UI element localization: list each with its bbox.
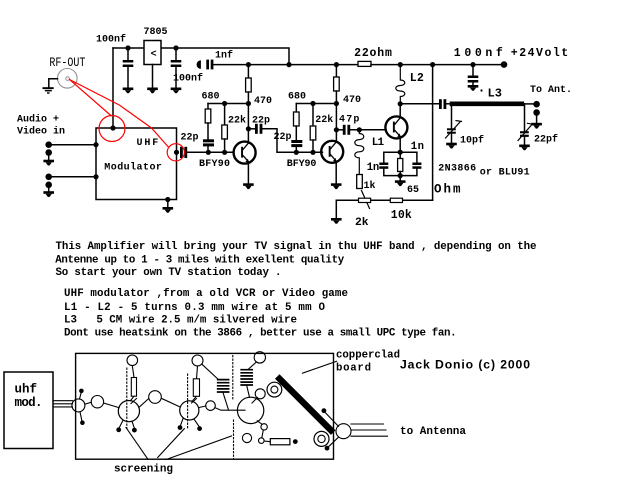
- capacitor C9 100nf: [468, 65, 479, 85]
- pcb choke coil 1: [218, 380, 229, 392]
- node L1 tap: [357, 127, 362, 132]
- pcb mid circle: [206, 401, 216, 411]
- node Q2 collector / 47p tap: [334, 127, 339, 132]
- terminal audio signal dot: [45, 141, 52, 148]
- pcb trace coil2 to PA: [247, 385, 250, 397]
- ground under modulator: [163, 207, 174, 213]
- ground under Q2: [331, 183, 342, 189]
- ground at bias rail: [331, 218, 342, 224]
- svg-text:470: 470: [254, 96, 272, 107]
- resistor R7 22k stage2: [310, 104, 316, 153]
- svg-text:22pf: 22pf: [534, 134, 558, 146]
- resistor R6 680 stage2: [294, 104, 300, 141]
- wire Q3 emitter down: [399, 137, 401, 152]
- wire RF-OUT to ground: [49, 79, 58, 87]
- node Q1 collector / C5 tap: [246, 126, 251, 131]
- terminal video signal dot: [45, 174, 52, 181]
- wire output line to riser: [400, 103, 439, 105]
- pcb double ring 1: [267, 382, 282, 397]
- node emitter network bottom: [398, 173, 403, 178]
- svg-text:L2: L2: [410, 72, 424, 85]
- wire modulator ground lead: [167, 200, 169, 208]
- node junction supply/470 stage1: [246, 62, 251, 67]
- pcb T2 top feed circle: [192, 355, 203, 366]
- connector RF-OUT socket: [58, 69, 78, 89]
- pcb T2 leg dots: [178, 419, 202, 431]
- svg-text:2N3866: 2N3866: [438, 163, 476, 174]
- pcb trace T1 to cap2: [139, 399, 149, 408]
- pcb thick strip L3: [280, 379, 332, 431]
- pcb trace T2 to mid circle: [199, 406, 206, 408]
- wire top rail right of 7805 to corner: [161, 48, 289, 65]
- svg-text:UHF: UHF: [137, 138, 161, 149]
- inductor L2: [396, 65, 405, 104]
- screening pointer line B: [158, 429, 185, 458]
- capacitor C8 1n right: [412, 163, 421, 169]
- ground at audio input: [43, 160, 54, 166]
- wire Q3 collector to output node: [399, 104, 401, 117]
- capacitor C6 47p series: [336, 125, 350, 135]
- resistor R12 65 Ohm: [398, 152, 403, 175]
- svg-text:22p: 22p: [274, 132, 292, 143]
- red callout line A to modulator corner: [70, 80, 112, 116]
- pcb dot after resistor: [293, 439, 298, 444]
- resistor R9 1k: [357, 175, 363, 189]
- svg-text:uhf: uhf: [15, 382, 38, 396]
- pcb antenna connector circle: [336, 424, 351, 439]
- svg-text:or BLU91: or BLU91: [480, 167, 530, 178]
- node junction supply/L2: [398, 62, 403, 67]
- svg-text:680: 680: [288, 92, 306, 103]
- svg-text:680: 680: [202, 92, 220, 103]
- pcb T1 leg dots: [116, 420, 137, 432]
- wire video input: [49, 176, 96, 178]
- pcb T1 feed wire: [131, 366, 135, 401]
- terminal video ground dot: [45, 182, 52, 192]
- pcb output resistor: [270, 439, 290, 445]
- pcb trace mid circle to PA: [215, 408, 245, 411]
- screening pointer line C: [166, 436, 232, 460]
- resistor R2 680 stage1: [205, 104, 211, 140]
- pcb pad dot upper left: [79, 389, 84, 399]
- wire bottom bias rail: [336, 199, 432, 201]
- wire C6 to Q3 base: [350, 129, 386, 131]
- modulator box: [96, 128, 177, 200]
- ground under CT1: [446, 143, 457, 149]
- capacitor C7 1n left: [379, 163, 388, 169]
- pcb cap circle 2: [149, 391, 162, 404]
- pcb resistor T2: [193, 379, 199, 397]
- svg-text:This Amplifier will bring your: This Amplifier will bring your TV signal…: [56, 241, 537, 253]
- pcb lone circle: [242, 433, 251, 442]
- inductor L1: [355, 130, 364, 175]
- pcb antenna pad dot lower: [325, 437, 339, 450]
- capacitor C4 22p series at modulator output: [180, 147, 187, 158]
- svg-text:RF-OUT: RF-OUT: [49, 56, 85, 70]
- svg-text:L1: L1: [372, 137, 385, 149]
- trimmer arrow through 2k: [362, 191, 370, 209]
- node base line / 22k: [222, 150, 227, 155]
- pcb cap circle 1: [91, 396, 103, 408]
- terminal antenna ground dot: [533, 109, 540, 123]
- wire bias rail left leg to ground: [335, 200, 337, 218]
- wire vertical feed down to modulator: [112, 48, 114, 128]
- pcb resistor T1: [131, 378, 136, 397]
- svg-text:UHF modulator ,from a old VCR: UHF modulator ,from a old VCR or Video g…: [64, 288, 348, 300]
- node junction supply corner: [286, 62, 291, 67]
- node base line2 / 22k: [310, 150, 315, 155]
- node modulator RF out pin: [174, 150, 179, 155]
- antenna coax lines: [351, 424, 388, 436]
- capacitor C2 100nf: [171, 48, 182, 88]
- uhf mod box: [4, 372, 53, 449]
- svg-text:10k: 10k: [391, 209, 412, 222]
- pcb trace coil1 down: [223, 393, 229, 410]
- wire bias rail to +24 supply riser: [432, 65, 434, 201]
- terminal +24Volt dot: [501, 61, 508, 68]
- pcb input connector circle: [72, 399, 85, 412]
- transistor Q1 BFY90: [234, 142, 256, 164]
- wire base line stage1: [187, 151, 233, 153]
- trimpot R10 2k: [359, 198, 371, 202]
- regulator U1 7805 box: [144, 41, 161, 65]
- svg-text:L1 - L2 - 5 turns 0.3 mm wire: L1 - L2 - 5 turns 0.3 mm wire at 5 mm O: [64, 302, 326, 314]
- stray dot: [480, 89, 482, 91]
- capacitor C3 1nf series: [197, 60, 214, 70]
- capacitor C5 22p series: [248, 124, 262, 134]
- node junction at C2: [173, 45, 178, 50]
- transistor Q3 2N3866: [385, 116, 407, 138]
- pcb PA bottom right chain: [257, 421, 270, 444]
- ground under Q1: [243, 183, 254, 189]
- wire network to ground: [399, 176, 401, 181]
- wire Q2 emitter to ground: [335, 162, 337, 184]
- capacitor C1 100nf: [123, 48, 134, 88]
- svg-text:22k: 22k: [315, 114, 333, 126]
- svg-text:Antenne up to 1 - 3 miles with: Antenne up to 1 - 3 miles with exellent …: [55, 254, 345, 266]
- node emitter network top: [398, 150, 403, 155]
- svg-text:BFY90: BFY90: [199, 159, 230, 170]
- node stage1 rail/collector: [246, 101, 251, 106]
- svg-text:7805: 7805: [144, 27, 168, 38]
- node base line / R2 chain: [206, 150, 211, 155]
- pcb trace cap1 to T1: [104, 403, 120, 408]
- svg-text:Dont use heatsink on the 3866: Dont use heatsink on the 3866 , better u…: [64, 328, 457, 340]
- wire 7805 ground lead: [152, 65, 154, 88]
- pcb trace cap2 to T2: [161, 398, 180, 407]
- node Q3 collector/L2: [398, 101, 403, 106]
- screening pointer line A: [126, 428, 148, 460]
- svg-text:100nf: 100nf: [173, 73, 203, 85]
- svg-text:to Antenna: to Antenna: [400, 426, 466, 438]
- wire audio input: [49, 144, 96, 146]
- node modulator audio pin: [93, 142, 98, 147]
- pcb transistor PA: [237, 397, 263, 423]
- inductor L3 silver wire: [452, 102, 522, 107]
- svg-text:47p: 47p: [339, 115, 359, 126]
- svg-text:Ohm: Ohm: [434, 183, 461, 197]
- pcb trace T2circle to coil1: [202, 364, 218, 379]
- pcb pad dot lower left: [80, 412, 85, 425]
- red callout line B to output cap: [70, 80, 169, 148]
- terminal antenna signal dot: [533, 101, 540, 108]
- wire supply line right of 22ohm: [371, 64, 504, 66]
- wire C10 to L3: [446, 103, 452, 105]
- wire Q1 emitter to ground: [247, 163, 249, 184]
- node modulator ground pin: [165, 197, 170, 202]
- emitter network frame: [384, 152, 417, 175]
- resistor R11 10k: [390, 198, 402, 202]
- svg-text:Video in: Video in: [17, 126, 65, 138]
- wire supply line y64.6: [213, 64, 358, 66]
- svg-text:1n: 1n: [367, 162, 379, 174]
- svg-text:22k: 22k: [228, 115, 246, 127]
- coax lines mod to board: [53, 401, 73, 407]
- svg-text:22p: 22p: [181, 133, 199, 144]
- resistor R4 22ohm: [358, 61, 371, 66]
- pcb small circle right of PA: [255, 389, 265, 399]
- wire top rail left of 7805: [113, 47, 144, 49]
- node base line2 / R6 chain: [294, 150, 299, 155]
- transistor Q2 BFY90: [321, 141, 343, 163]
- pcb double ring 2: [314, 431, 329, 446]
- svg-text:10pf: 10pf: [460, 135, 484, 147]
- svg-text:65: 65: [407, 185, 419, 196]
- ground at antenna terminal: [531, 123, 542, 129]
- node modulator video pin: [93, 174, 98, 179]
- pcb antenna pad dot upper: [322, 408, 339, 426]
- svg-text:BFY90: BFY90: [287, 159, 317, 170]
- pcb PA top feed circle: [254, 352, 265, 363]
- node stage2 rail/22k: [310, 101, 315, 106]
- svg-text:Modulator: Modulator: [104, 162, 162, 174]
- wire C5 to stage2 base: [262, 129, 322, 153]
- ground under CT2: [519, 145, 530, 151]
- trimmer CT1 10pf: [446, 104, 462, 143]
- pcb transistor T2: [180, 399, 199, 421]
- ground at RF-OUT: [43, 87, 54, 94]
- node junction at C1: [125, 45, 130, 50]
- resistor R8 470 stage2 collector: [334, 65, 340, 143]
- svg-text:To Ant.: To Ant.: [530, 85, 572, 96]
- wire L3 to antenna terminal: [522, 103, 534, 105]
- resistor R1 470 stage1 collector: [246, 65, 252, 144]
- red callout circle on output cap: [167, 144, 184, 161]
- svg-text:100nf: 100nf: [454, 47, 503, 60]
- wire stage2 bias rail: [296, 103, 336, 105]
- svg-text:+24Volt: +24Volt: [511, 47, 568, 60]
- wire stage1 bias rail: [208, 103, 248, 105]
- terminal audio ground dot: [45, 149, 52, 160]
- node junction supply/432 line: [430, 62, 435, 67]
- pcb T2 feed wire: [192, 366, 198, 402]
- screening wall 1 dotted: [126, 368, 128, 428]
- capacitor under R2: [203, 139, 214, 152]
- screening wall 3 dotted upper: [232, 356, 234, 400]
- svg-text:copperclad: copperclad: [336, 349, 400, 361]
- svg-text:22ohm: 22ohm: [354, 47, 392, 60]
- svg-text:1nf: 1nf: [215, 50, 233, 62]
- pcb choke coil 2: [241, 370, 252, 385]
- screening wall 3 dotted lower: [233, 420, 235, 459]
- callout line to board edge: [303, 361, 337, 373]
- node junction supply/470 stage2: [334, 62, 339, 67]
- pcb trace to cap1: [85, 402, 91, 404]
- svg-text:Audio +: Audio +: [17, 114, 59, 126]
- svg-text:mod.: mod.: [15, 396, 43, 410]
- svg-text:100nf: 100nf: [96, 34, 126, 46]
- pcb board outline: [76, 353, 334, 459]
- ground under C1: [123, 88, 134, 94]
- node modulator top feed: [110, 125, 115, 130]
- pcb trace topcircle to coil2: [248, 362, 256, 370]
- svg-text:board: board: [336, 362, 371, 374]
- node junction supply/C 100nf: [470, 62, 475, 67]
- svg-text:L3 5 CM wire 2.5 m/m silvere: L3 5 CM wire 2.5 m/m silvered wire: [64, 315, 297, 327]
- trimmer CT2 22pf: [518, 104, 533, 145]
- ground under C2: [171, 88, 182, 94]
- svg-text:1n: 1n: [411, 141, 424, 153]
- capacitor C10 output series: [439, 99, 446, 109]
- svg-text:screening: screening: [114, 463, 173, 475]
- red callout circle on modulator corner: [99, 116, 125, 142]
- pcb transistor T1: [118, 399, 139, 422]
- svg-text:1k: 1k: [364, 180, 376, 192]
- svg-text:So start your own TV station t: So start your own TV station today .: [56, 267, 282, 279]
- svg-text:Jack Donio (c) 2000: Jack Donio (c) 2000: [400, 358, 530, 372]
- ground under emitter network: [395, 180, 406, 186]
- svg-text:<: <: [151, 50, 157, 61]
- capacitor under R6: [291, 140, 302, 152]
- ground at video input: [43, 191, 54, 197]
- ground under 7805: [147, 88, 158, 94]
- screening wall 2 dotted: [187, 374, 189, 429]
- node stage2 rail/collector: [334, 101, 339, 106]
- svg-text:470: 470: [343, 95, 361, 106]
- svg-text:L3: L3: [488, 87, 502, 101]
- ground under C9: [468, 85, 479, 91]
- svg-text:2k: 2k: [355, 217, 369, 229]
- resistor R5 22k stage1: [222, 104, 228, 153]
- pcb T1 top feed circle: [127, 355, 138, 366]
- node stage1 rail/22k: [222, 101, 227, 106]
